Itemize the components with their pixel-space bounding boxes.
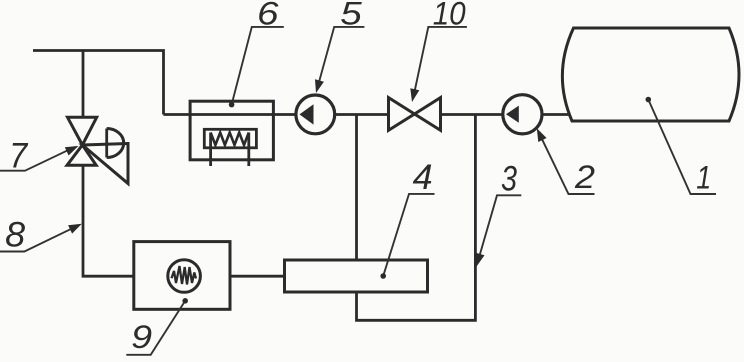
svg-text:7: 7 [9, 137, 28, 176]
svg-text:10: 10 [433, 0, 466, 32]
svg-text:4: 4 [413, 158, 433, 197]
svg-text:1: 1 [696, 159, 711, 195]
svg-text:2: 2 [574, 159, 595, 195]
svg-text:6: 6 [257, 0, 280, 32]
svg-text:3: 3 [501, 160, 517, 199]
svg-text:8: 8 [5, 216, 26, 255]
svg-text:9: 9 [131, 319, 152, 355]
svg-text:5: 5 [340, 0, 363, 32]
